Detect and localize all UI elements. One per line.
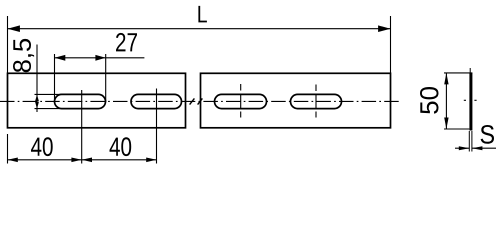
slot 3 vertical center mark (240, 84, 242, 118)
dimension 27 extension line right (105, 54, 107, 102)
dimension 40 extension line left (7, 134, 9, 164)
dimension 27 arrow left (55, 55, 66, 61)
dimension 8,5 arrow down (35, 102, 39, 109)
dimension 8,5 arrow up (35, 95, 39, 102)
dimension 50 arrow down (444, 118, 448, 130)
dimension 40 arrow far left (8, 158, 18, 163)
label 8,5 (13, 39, 34, 72)
dimension 50 extension line top (444, 72, 472, 74)
side view centerline tick right (474, 99, 478, 101)
dimension S line right segment (472, 147, 496, 149)
slot 4 (291, 94, 342, 108)
dimension 50 arrow up (444, 73, 448, 85)
break mark right (198, 98, 203, 104)
dimension 40 arrow far right (146, 158, 156, 163)
slot 2 (131, 94, 182, 108)
right plate outline (201, 73, 391, 128)
break mark left (190, 98, 195, 104)
slot 4 vertical center mark (315, 85, 317, 118)
label 40 first (31, 137, 53, 156)
dimension S line left segment (455, 147, 469, 149)
label 27 (116, 33, 137, 52)
left plate outline (8, 73, 186, 128)
dimension 50 line (445, 73, 447, 129)
dimension 8,5 line (36, 45, 38, 113)
dimension 27 line (55, 57, 145, 59)
dimension L line (8, 28, 391, 30)
label 50 (420, 87, 439, 114)
dimension L extension line right (390, 16, 392, 74)
label L (198, 6, 207, 23)
dimension S arrow pointing left (472, 146, 483, 150)
dimension L extension line left (7, 16, 9, 74)
dimension 40 extension line middle (81, 90, 83, 164)
dimension 40 arrow middle right (82, 158, 92, 163)
dimension 8,5 extension line top (35, 93, 63, 95)
dimension 27 arrow right (95, 55, 105, 61)
centerline (main horizontal axis) (0, 100, 401, 102)
slot 3 (215, 94, 267, 108)
side view centerline tick left (464, 99, 468, 101)
dimension L arrow left (8, 25, 20, 32)
dimension 40 arrow middle left (71, 158, 81, 163)
dimension S arrow pointing right (459, 146, 470, 150)
dimension 50 extension line bottom (444, 128, 469, 130)
dimension L arrow right (378, 25, 390, 32)
side view top edge overshoot stub (469, 68, 471, 73)
dimension 27 extension line left (54, 54, 56, 100)
dimension 40 extension line right (156, 89, 158, 164)
dimension 40 line (8, 159, 157, 161)
side view strip body (469, 73, 472, 131)
dimension 8,5 extension line bottom (35, 108, 63, 110)
label 40 second (110, 137, 132, 156)
label S (481, 125, 494, 144)
slot 1 (55, 94, 106, 108)
dimension S extension line right (471, 131, 473, 152)
dimension S extension line left (468, 131, 470, 152)
